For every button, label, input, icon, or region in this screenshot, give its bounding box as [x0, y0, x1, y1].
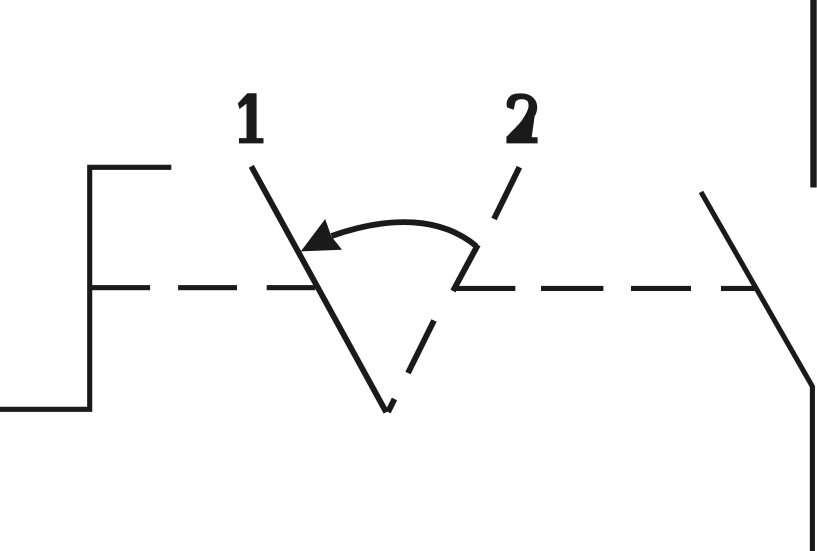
wire: movement axis dashed line, left section dash a: [92, 285, 150, 290]
right switch lever and bottom terminal wire: [701, 192, 812, 551]
wire: movement axis dashed line, left section dash b: [178, 285, 237, 290]
wire: movement axis dashed line, right section dash f: [631, 286, 691, 291]
arrowhead at position 1: [301, 219, 342, 251]
label 1 (position 1): [238, 93, 264, 143]
wire: top right terminal: [810, 0, 816, 188]
switch lever position 1 (solid contact blade): [251, 166, 386, 412]
switch lever position 2 dash 1: [494, 167, 519, 219]
switch lever position 2 dash 3: [408, 321, 434, 374]
wire: left terminal bracket (top stub, vertical, bottom stub): [0, 167, 171, 409]
wire: movement axis dashed line, right section dash d: [453, 286, 516, 291]
arrow arc from position 2 to position 1: [332, 222, 477, 246]
wire: movement axis dashed line, right section dash g: [721, 286, 756, 291]
wire: movement axis dashed line, right section dash e: [541, 286, 603, 291]
switch lever position 2 dash 2: [453, 245, 478, 291]
label 2 (position 2): [506, 93, 537, 143]
switch lever position 2 dash 4: [388, 399, 395, 412]
wire: movement axis dashed line, left section dash c: [267, 285, 316, 290]
